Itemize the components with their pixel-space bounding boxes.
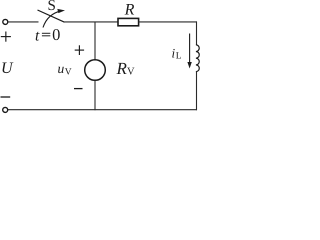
wire bottom segment xyxy=(8,109,197,111)
source plus sign xyxy=(75,49,84,51)
wire middle branch upper xyxy=(94,22,96,60)
svg-text:V: V xyxy=(65,68,72,78)
port plus sign xyxy=(1,36,11,38)
terminal top-left xyxy=(3,19,8,24)
resistor R body xyxy=(118,18,139,25)
current arrow iL xyxy=(189,34,191,64)
svg-text:R: R xyxy=(116,59,128,78)
svg-text:R: R xyxy=(124,2,135,19)
svg-text:L: L xyxy=(176,52,182,62)
source minus sign xyxy=(74,88,83,90)
port minus sign xyxy=(1,96,11,98)
wire top-right segment xyxy=(139,21,197,23)
svg-text:u: u xyxy=(58,61,65,76)
voltage source uV circle xyxy=(85,60,106,81)
terminal bottom-left xyxy=(3,107,8,112)
switch S actuation arrow xyxy=(43,11,62,28)
svg-text:S: S xyxy=(48,0,56,14)
svg-text:0: 0 xyxy=(52,25,60,44)
wire right lower segment xyxy=(196,71,198,110)
wire top-left segment xyxy=(8,21,38,23)
wire top-mid segment xyxy=(65,21,119,23)
wire middle branch lower xyxy=(94,80,96,110)
inductor L coil xyxy=(196,45,199,72)
svg-text:U: U xyxy=(1,60,14,77)
svg-text:V: V xyxy=(127,67,135,78)
switch S blade xyxy=(38,10,65,22)
wire right upper segment xyxy=(196,21,198,44)
svg-text:t: t xyxy=(35,27,40,44)
